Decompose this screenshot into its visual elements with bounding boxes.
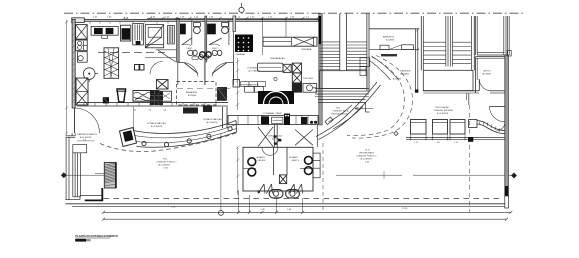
- stair B landing: [423, 70, 473, 90]
- wall w3: [233, 16, 236, 32]
- svg-text:LADIES: LADIES: [258, 159, 266, 162]
- entry arc top: [262, 147, 278, 155]
- right wall: [504, 16, 511, 208]
- sala label: [332, 108, 349, 116]
- center fixture box: [279, 175, 286, 184]
- door leaf 2: [209, 38, 222, 45]
- property dash-dot line: [64, 12, 524, 14]
- svg-text:ZONA DE BALCAO: ZONA DE BALCAO: [203, 118, 222, 121]
- stair A: [315, 14, 369, 97]
- under-stair room walls: [318, 99, 370, 112]
- door leaves right: [289, 184, 303, 194]
- small black square: [258, 190, 260, 192]
- trash cone: [116, 89, 126, 102]
- waiting chairs row: [409, 120, 466, 145]
- svg-text:A.CLIENTE: A.CLIENTE: [207, 121, 219, 124]
- toilet 2: [222, 23, 229, 27]
- stair A treads flight 2: [347, 42, 367, 70]
- preparation counter: [263, 37, 317, 46]
- round table: [83, 68, 98, 82]
- dashed work line: [98, 52, 165, 54]
- gabinete label: [77, 133, 97, 141]
- door left wall: [75, 108, 100, 133]
- bar return wall: [223, 107, 228, 128]
- stair A treads flight 1: [319, 42, 339, 70]
- arrow line: [355, 107, 374, 110]
- bar stools: [142, 127, 232, 147]
- sanit labels: [257, 156, 300, 162]
- inner partitions: [273, 147, 275, 175]
- svg-text:GABINETE/VARIOS: GABINETE/VARIOS: [77, 133, 97, 136]
- cross mark: [274, 77, 277, 80]
- right niche: [313, 153, 320, 178]
- sink unit: [78, 52, 88, 63]
- svg-text:A.CLIENTE: A.CLIENTE: [151, 125, 163, 128]
- bar left end block: [120, 128, 137, 147]
- svg-text:GENTS: GENTS: [292, 160, 300, 162]
- curved corridor wall band: [316, 82, 381, 140]
- toilet 1: [194, 23, 201, 27]
- svg-text:A.CMNS: A.CMNS: [483, 73, 492, 76]
- hatched pier block: [104, 162, 116, 188]
- svg-text:COZINHA: COZINHA: [247, 67, 257, 70]
- stair B: [421, 16, 474, 91]
- svg-text:22.35: 22.35: [402, 208, 408, 210]
- stair exit steps: [360, 58, 370, 76]
- svg-text:A.A: A.A: [123, 16, 128, 20]
- dark locker 1: [180, 24, 186, 35]
- urinal fixtures: [269, 190, 299, 198]
- right wall line: [316, 125, 318, 147]
- chairs dim ticks: [409, 135, 466, 141]
- day store room: [177, 82, 216, 105]
- cold store dotted block: [235, 35, 253, 57]
- mid kitchen corridor doors: [145, 57, 234, 85]
- X cabinets column: [292, 63, 301, 92]
- stair A walls: [339, 14, 341, 71]
- toilets block: [236, 125, 320, 198]
- svg-text:PREPARACAO: PREPARACAO: [270, 57, 285, 60]
- basins right: [305, 156, 313, 164]
- service counter: [77, 103, 228, 112]
- svg-text:PREPARA.: PREPARA.: [301, 48, 312, 51]
- svg-text:N.N.: N.N.: [163, 159, 168, 161]
- stair A lower walls: [315, 87, 369, 89]
- left wall upper: [72, 19, 75, 135]
- grid bubble: [239, 7, 244, 12]
- crate with X: [156, 80, 168, 90]
- bottom dimension line 1: [102, 211, 512, 216]
- emergency exit label: [381, 54, 397, 56]
- shelf row: [241, 82, 266, 93]
- curved bar counter: [120, 121, 237, 148]
- decorative leaf panel: [104, 48, 119, 79]
- radial step block: [325, 117, 333, 125]
- svg-text:VEST.: VEST.: [212, 48, 218, 50]
- dark equipment block: [217, 87, 227, 101]
- section line right diamond: [336, 171, 517, 179]
- kitchen east wall: [319, 14, 323, 126]
- apoio room: [476, 57, 505, 93]
- wall w2 gray: [205, 16, 207, 62]
- svg-text:SAIDA EM.: SAIDA EM.: [400, 70, 411, 73]
- svg-text:ZONA DE BALCAO: ZONA DE BALCAO: [147, 122, 166, 125]
- circulacao label: [268, 135, 283, 144]
- restaurant label block: [357, 150, 377, 164]
- svg-text:A.SANIT.: A.SANIT.: [290, 156, 299, 159]
- svg-text:A.CLIENTE: A.CLIENTE: [361, 158, 373, 161]
- stall labels: [187, 48, 219, 50]
- svg-text:RESTAURANT: RESTAURANT: [360, 152, 375, 155]
- svg-text:EMPRATAMENTO: EMPRATAMENTO: [241, 83, 259, 86]
- wash circles pair: [199, 55, 204, 60]
- wash sinks: [188, 50, 194, 55]
- tall cabinet with X: [76, 25, 88, 39]
- entry door arcs right wall: [490, 107, 505, 131]
- top wall ticks left: [90, 21, 168, 24]
- wall w1: [177, 19, 180, 62]
- hall lower wall: [423, 91, 504, 105]
- work table: [91, 27, 118, 39]
- grid dark block: [150, 91, 163, 105]
- cozinha label: [247, 67, 260, 73]
- svg-text:CIRCULACAO: CIRCULACAO: [435, 106, 450, 109]
- svg-text:N.N.: N.N.: [336, 108, 341, 110]
- public zone label block: [157, 159, 177, 170]
- thin verticals preparation: [262, 18, 264, 56]
- dashed vertical right of toilets: [322, 143, 324, 212]
- upper door swing X right: [258, 127, 313, 147]
- partition p2: [228, 20, 230, 45]
- door leaf 1: [182, 38, 192, 45]
- X-brace column: [76, 78, 88, 105]
- stair A landing: [319, 71, 367, 89]
- svg-text:A.CLIENTE: A.CLIENTE: [437, 112, 449, 115]
- svg-text:CAMARA: CAMARA: [236, 53, 246, 56]
- drop line from counter: [133, 106, 135, 129]
- dash diamond: [394, 131, 398, 135]
- dashed vertical partition: [469, 105, 471, 212]
- left dim line: [236, 146, 239, 195]
- corridor inner arcs: [329, 56, 400, 129]
- scale box: [303, 84, 317, 93]
- black range blob: [258, 91, 294, 104]
- top dimension line: [147, 17, 319, 20]
- dark locker 2: [207, 24, 216, 35]
- door leaves left: [258, 184, 273, 194]
- drop line to circle: [220, 133, 222, 211]
- diagonal hood box: [145, 25, 163, 48]
- outer box: [243, 147, 313, 191]
- counter return curve: [156, 50, 177, 62]
- wall turn left lower: [65, 136, 102, 200]
- storage room top right: [369, 29, 419, 93]
- circulacao espera label: [434, 106, 454, 115]
- zona de balcao label: [147, 122, 166, 128]
- svg-text:COPA/BAR PREP.: COPA/BAR PREP.: [263, 112, 282, 115]
- svg-text:ARRUMOS: ARRUMOS: [383, 36, 395, 39]
- svg-text:APOIO: APOIO: [484, 70, 491, 73]
- fridge dark block: [121, 25, 131, 41]
- svg-text:ZONA DE PUBLICO: ZONA DE PUBLICO: [157, 161, 177, 164]
- two small appliances: [135, 65, 145, 71]
- svg-text:DEP.GAS: DEP.GAS: [304, 77, 314, 80]
- dim vertical mid: [236, 58, 239, 110]
- step corner dark: [85, 188, 103, 201]
- striped cabinet 1: [133, 24, 144, 45]
- shaft room top right: [476, 16, 505, 55]
- partition p1: [191, 20, 193, 45]
- drop verticals from toilets: [239, 191, 303, 212]
- svg-text:N.N.: N.N.: [366, 150, 371, 152]
- buffet box 2: [159, 91, 171, 101]
- public zone dashed curve: [100, 133, 238, 152]
- section line left diamond: [61, 172, 104, 178]
- entry bench: [469, 120, 506, 134]
- svg-text:A.COMIDA: A.COMIDA: [249, 70, 260, 73]
- apoio door: [478, 79, 480, 91]
- back bar counter: [228, 112, 318, 125]
- svg-text:ZONA DE PUBLICO: ZONA DE PUBLICO: [357, 155, 377, 158]
- staff WC stall row: [177, 16, 236, 80]
- dashed service line: [177, 88, 230, 90]
- top wall: [72, 18, 319, 24]
- bar band: [133, 121, 237, 148]
- corridor walls to bar: [273, 125, 275, 148]
- striped cabinet 2: [168, 26, 175, 44]
- zona right label: [203, 118, 222, 124]
- small dark box: [103, 97, 109, 103]
- svg-text:ARMAZEM: ARMAZEM: [186, 91, 197, 94]
- svg-text:A.SANIT.: A.SANIT.: [257, 156, 266, 159]
- basins left: [248, 158, 256, 166]
- cook counter: [257, 63, 291, 72]
- bottom dimension line 2: [102, 218, 508, 221]
- svg-text:VEST.: VEST.: [187, 48, 193, 50]
- svg-text:A.CMNS: A.CMNS: [401, 73, 410, 76]
- svg-text:ZONA DE SALA: ZONA DE SALA: [333, 110, 349, 113]
- stair B treads: [423, 42, 471, 64]
- small box right: [233, 80, 240, 88]
- buffet wavy counter: [133, 91, 159, 102]
- bottom boundary lines: [66, 198, 507, 206]
- corridor labels: [393, 70, 411, 81]
- svg-text:RESTAURANTE: RESTAURANTE: [332, 113, 349, 116]
- bottom dim labels: [171, 207, 408, 211]
- top dimension labels: [151, 17, 310, 19]
- svg-text:ZONA DE ESPERA: ZONA DE ESPERA: [434, 109, 454, 112]
- lobby wall under chairs: [406, 137, 505, 142]
- title block: [75, 234, 118, 241]
- burner unit: [76, 40, 88, 51]
- svg-text:PLANTA DO ESTABELECIMENTO: PLANTA DO ESTABELECIMENTO: [75, 234, 118, 238]
- svg-text:A.CLIENTE: A.CLIENTE: [159, 164, 171, 167]
- left dimension line: [65, 20, 68, 135]
- svg-text:A.CMNS: A.CMNS: [386, 39, 395, 42]
- corridor dashed centerline: [347, 57, 405, 136]
- counter dark marks: [183, 108, 198, 114]
- kitchen left column equipment: [76, 25, 88, 63]
- svg-text:A.CMNS: A.CMNS: [393, 78, 402, 81]
- svg-text:A.CMNS: A.CMNS: [188, 94, 197, 97]
